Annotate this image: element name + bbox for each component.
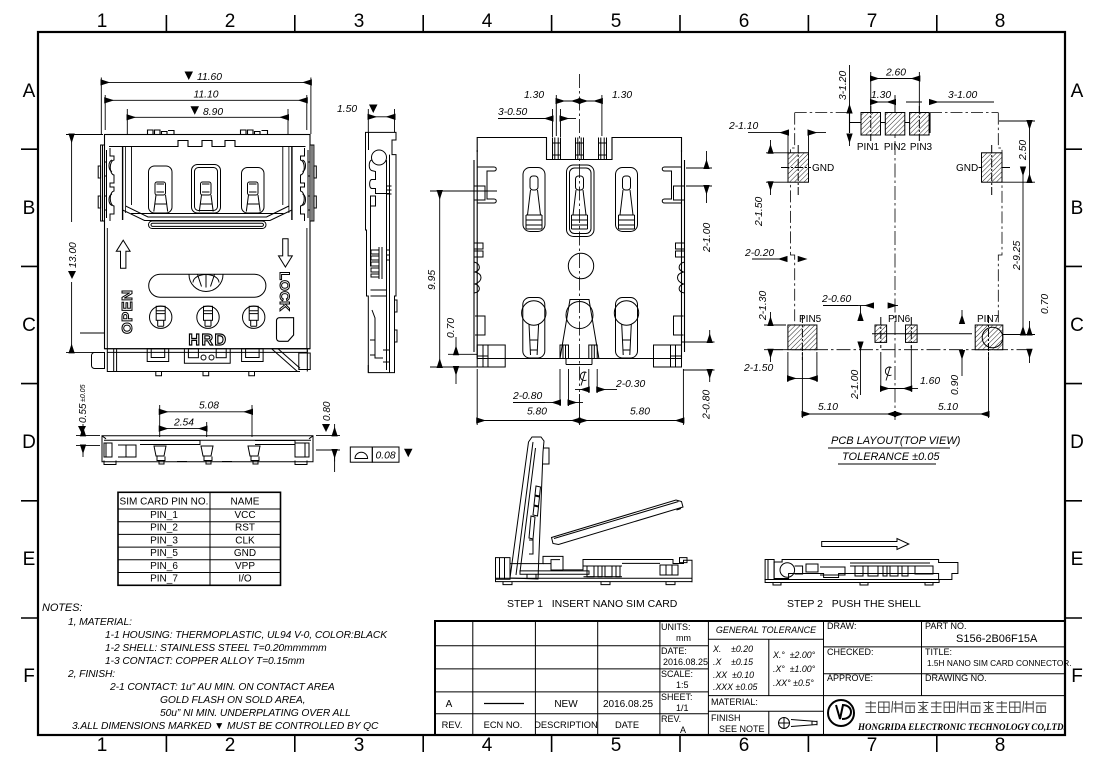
svg-text:MATERIAL:: MATERIAL: <box>711 697 758 707</box>
bottom contact C <box>614 298 638 359</box>
pcb horizontal centerline <box>769 349 1033 351</box>
svg-text:1: 1 <box>97 735 108 756</box>
svg-text:PIN7: PIN7 <box>977 314 1000 325</box>
step2 push arrow <box>822 539 909 550</box>
frame ticks right <box>1066 149 1082 618</box>
svg-text:1.30: 1.30 <box>524 90 544 101</box>
pad PIN1 <box>861 106 881 141</box>
pcb vertical centerline <box>894 96 896 420</box>
dimension 5.10 left <box>802 352 988 418</box>
dimension 2-1.00 pcb <box>860 342 862 395</box>
flatness symbol 0.08 <box>350 447 399 462</box>
capsule slot <box>149 221 267 229</box>
svg-text:5.80: 5.80 <box>527 407 547 418</box>
svg-text:PIN_6: PIN_6 <box>150 561 178 572</box>
svg-text:5.10: 5.10 <box>938 402 958 413</box>
dimension 2-1.50 upper <box>766 140 788 195</box>
frame ticks left <box>21 149 37 618</box>
svg-text:A: A <box>680 725 686 735</box>
svg-text:PIN_7: PIN_7 <box>150 574 178 585</box>
svg-text:DATE: DATE <box>615 720 639 730</box>
dimension 11.10 <box>105 95 307 130</box>
svg-text:SIM CARD PIN NO.: SIM CARD PIN NO. <box>120 497 209 508</box>
svg-text:F: F <box>1071 666 1083 687</box>
top contact slot B <box>567 165 595 237</box>
svg-text:2-0.80: 2-0.80 <box>512 391 542 402</box>
revision header row <box>442 720 639 730</box>
dimension 2-0.60 <box>823 306 898 321</box>
dimension 8.90 <box>127 109 288 134</box>
finish symbol <box>779 718 818 729</box>
frame ticks bottom <box>166 736 936 752</box>
dimension 2.54 <box>160 422 207 437</box>
svg-text:2-0.30: 2-0.30 <box>615 379 645 390</box>
svg-text:PIN3: PIN3 <box>910 142 933 153</box>
svg-text:D: D <box>22 432 36 453</box>
dimension 2-0.80 bottom <box>513 369 583 406</box>
body outline center view <box>474 138 685 359</box>
svg-text:0.55: 0.55 <box>78 403 89 423</box>
svg-text:SHEET:: SHEET: <box>661 692 693 702</box>
svg-text:2.50: 2.50 <box>1018 140 1029 161</box>
svg-text:1/1: 1/1 <box>676 703 689 713</box>
round contact 2 <box>197 306 219 328</box>
dimension 2-0.20 <box>752 258 806 260</box>
svg-text:ECN NO.: ECN NO. <box>484 720 523 730</box>
svg-text:2.54: 2.54 <box>173 418 194 429</box>
svg-text:6: 6 <box>739 735 750 756</box>
dimension 2-9.25 <box>1003 168 1035 335</box>
svg-text:C: C <box>22 315 36 336</box>
pcb outline chain <box>791 113 1003 350</box>
inner walls <box>107 147 307 349</box>
svg-text:2-1.50: 2-1.50 <box>754 197 765 227</box>
svg-text:6: 6 <box>739 11 750 32</box>
svg-text:DESCRIPTION: DESCRIPTION <box>534 720 598 730</box>
svg-text:B: B <box>1071 198 1084 219</box>
svg-text:STEP 2 PUSH THE SHELL: STEP 2 PUSH THE SHELL <box>787 598 921 610</box>
svg-text:GENERAL TOLERANCE: GENERAL TOLERANCE <box>716 625 817 635</box>
left side bracket features <box>474 167 505 367</box>
pad GND right <box>979 145 1011 195</box>
svg-text:LOCK: LOCK <box>277 272 293 312</box>
svg-text:7: 7 <box>867 11 878 32</box>
svg-text:A: A <box>23 81 36 102</box>
dimension 1.60 <box>881 346 918 392</box>
svg-text:E: E <box>23 549 36 570</box>
svg-text:GOLD FLASH ON SOLD AREA,: GOLD FLASH ON SOLD AREA, <box>160 695 305 706</box>
svg-text:REV.: REV. <box>442 720 463 730</box>
svg-text:PART NO.: PART NO. <box>925 621 967 631</box>
svg-text:4: 4 <box>482 11 493 32</box>
svg-text:5.08: 5.08 <box>199 401 219 412</box>
svg-text:2.60: 2.60 <box>885 68 906 79</box>
frame ticks top <box>166 15 936 31</box>
svg-text:2-1.00: 2-1.00 <box>850 370 861 400</box>
svg-text:D: D <box>1070 432 1084 453</box>
svg-text:REV.: REV. <box>661 714 681 724</box>
shell outline top view <box>105 130 311 349</box>
lock sim icon <box>277 318 294 342</box>
svg-text:1.50: 1.50 <box>337 104 357 115</box>
side view body <box>102 436 313 465</box>
dimension 0.70 pcb <box>1029 321 1031 363</box>
top posts <box>553 138 607 160</box>
svg-text:11.10: 11.10 <box>193 90 218 101</box>
pad PIN6 pair <box>872 317 972 348</box>
svg-text:1.5H NANO SIM CARD CONNECTOR.: 1.5H NANO SIM CARD CONNECTOR. <box>927 658 1072 668</box>
dimension 9.95 <box>430 191 497 367</box>
bottom flange <box>80 333 310 376</box>
svg-text:OPEN: OPEN <box>119 289 136 334</box>
svg-text:RST: RST <box>235 523 255 534</box>
svg-text:VPP: VPP <box>235 561 255 572</box>
dimension 5.08 <box>160 405 252 437</box>
svg-text:F: F <box>23 666 35 687</box>
svg-text:5: 5 <box>611 11 622 32</box>
svg-text:CLK: CLK <box>235 535 255 546</box>
svg-text:3: 3 <box>354 735 365 756</box>
pad PIN2 <box>885 113 905 136</box>
svg-text:4: 4 <box>482 735 493 756</box>
dimension 2-1.00 <box>686 151 712 203</box>
shell fold diagonals <box>123 206 292 221</box>
units cell <box>661 622 708 735</box>
svg-text:FINISH: FINISH <box>711 713 741 723</box>
svg-text:S156-2B06F15A: S156-2B06F15A <box>956 633 1038 645</box>
dimension 0.55 <box>76 424 100 457</box>
svg-text:NOTES:: NOTES: <box>42 602 82 614</box>
svg-text:2-1.00: 2-1.00 <box>702 223 713 253</box>
svg-text:8: 8 <box>995 735 1006 756</box>
step1 base connector <box>496 556 693 584</box>
right side bracket features <box>654 167 685 367</box>
svg-text:2-1.30: 2-1.30 <box>758 291 769 321</box>
dimension 3-1.00 <box>930 101 994 103</box>
dimension 0.80 <box>316 424 340 472</box>
svg-text:VCC: VCC <box>234 510 255 521</box>
svg-text:3-1.20: 3-1.20 <box>838 71 849 100</box>
svg-text:5: 5 <box>611 735 622 756</box>
dimension 1.30 left <box>556 95 602 136</box>
LOCK arrow <box>279 239 293 267</box>
svg-text:E: E <box>1071 549 1084 570</box>
company chinese name <box>866 701 1047 713</box>
svg-text:TOLERANCE ±0.05: TOLERANCE ±0.05 <box>842 451 940 463</box>
dimension 13.00 <box>66 135 104 353</box>
svg-text:UNITS:: UNITS: <box>661 622 691 632</box>
dimension 2-0.80 right <box>682 330 715 382</box>
svg-text:1, MATERIAL:: 1, MATERIAL: <box>68 617 132 628</box>
svg-text:2016.08.25: 2016.08.25 <box>603 699 653 710</box>
contact slot 1 <box>149 166 173 213</box>
svg-text:DRAWING NO.: DRAWING NO. <box>925 673 987 683</box>
pads row mid line <box>850 113 931 133</box>
dimension 2-1.50 lower <box>788 352 817 382</box>
svg-text:.XX° ±0.5°: .XX° ±0.5° <box>773 678 814 688</box>
svg-text:13.00: 13.00 <box>68 242 79 268</box>
top contact slot A <box>523 168 545 232</box>
svg-text:1.30: 1.30 <box>612 90 632 101</box>
left ear <box>98 145 125 221</box>
view2: side profile <box>337 104 397 373</box>
svg-text:0.08: 0.08 <box>376 451 396 462</box>
svg-text:X.° ±2.00°: X.° ±2.00° <box>772 650 816 660</box>
dimension 3-0.50 <box>498 109 576 137</box>
side profile body <box>366 132 398 372</box>
svg-text:2-0.60: 2-0.60 <box>821 294 851 305</box>
svg-text:2-0.80: 2-0.80 <box>702 390 713 420</box>
svg-text:PIN6: PIN6 <box>888 314 911 325</box>
dimension 2-1.30 <box>764 312 786 362</box>
svg-text:1-3 CONTACT: COPPER ALLOY T=0: 1-3 CONTACT: COPPER ALLOY T=0.15mm <box>105 656 305 667</box>
bottom contact B center <box>560 300 599 365</box>
svg-text:2-0.20: 2-0.20 <box>744 248 774 259</box>
svg-text:PCB LAYOUT(TOP VIEW): PCB LAYOUT(TOP VIEW) <box>831 435 961 447</box>
contact slot 3 <box>242 168 265 214</box>
dimension 3-1.20 <box>849 65 851 146</box>
step1 shell raised <box>510 437 549 579</box>
svg-text:TITLE:: TITLE: <box>925 647 952 657</box>
svg-text:PIN5: PIN5 <box>799 314 822 325</box>
svg-text:X. ±0.20: X. ±0.20 <box>712 644 753 654</box>
svg-text:±0.05: ±0.05 <box>80 384 87 402</box>
top contact slot C <box>616 168 638 232</box>
svg-text:0.80: 0.80 <box>322 401 333 421</box>
svg-text:11.60: 11.60 <box>197 72 222 83</box>
dimension 2-1.10 <box>748 133 826 153</box>
svg-text:8: 8 <box>995 11 1006 32</box>
svg-text:0.70: 0.70 <box>446 318 457 338</box>
center hole <box>568 253 593 278</box>
svg-text:2, FINISH:: 2, FINISH: <box>67 669 115 680</box>
svg-text:PIN_3: PIN_3 <box>150 535 178 546</box>
title block grid <box>435 621 1065 735</box>
pad PIN7 <box>975 315 1003 360</box>
svg-text:3: 3 <box>354 11 365 32</box>
svg-text:0.90: 0.90 <box>950 375 961 395</box>
pad PIN5 <box>788 315 817 360</box>
svg-text:NAME: NAME <box>231 497 260 508</box>
revision row A <box>446 699 654 710</box>
svg-text:I/O: I/O <box>238 574 252 585</box>
svg-text:8.90: 8.90 <box>203 107 223 118</box>
right ear <box>289 145 316 221</box>
svg-text:HRD: HRD <box>188 332 227 349</box>
dimension 1.50 <box>368 109 394 132</box>
svg-text:2-1.50: 2-1.50 <box>743 363 773 374</box>
OPEN arrow <box>116 240 130 268</box>
svg-text:5.10: 5.10 <box>818 402 838 413</box>
svg-text:2-1 CONTACT: 1u” AU MIN. ON CO: 2-1 CONTACT: 1u” AU MIN. ON CONTACT AREA <box>109 682 335 693</box>
svg-text:HONGRIDA ELECTRONIC TECHNOLOGY: HONGRIDA ELECTRONIC TECHNOLOGY CO,LTD. <box>857 722 1066 732</box>
svg-text:B: B <box>23 198 36 219</box>
svg-text:1.60: 1.60 <box>920 376 940 387</box>
round contact 3 <box>243 306 265 328</box>
svg-text:3.ALL DIMENSIONS MARKED ▼ MUS: 3.ALL DIMENSIONS MARKED ▼ MUST BE CONTRO… <box>72 721 379 732</box>
svg-text:SEE NOTE: SEE NOTE <box>719 724 765 734</box>
dimension 2-0.30 <box>575 369 617 393</box>
bottom contact A <box>522 298 546 359</box>
svg-text:NEW: NEW <box>554 699 578 710</box>
svg-text:9.95: 9.95 <box>427 270 438 290</box>
svg-text:PIN_5: PIN_5 <box>150 548 178 559</box>
centerline symbol pcb <box>885 367 891 380</box>
svg-text:1:5: 1:5 <box>676 680 689 690</box>
round contact 1 <box>150 306 172 328</box>
svg-text:2-1.10: 2-1.10 <box>728 121 758 132</box>
svg-text:GND: GND <box>234 548 256 559</box>
svg-text:0.70: 0.70 <box>1040 294 1051 314</box>
svg-text:1-2 SHELL: STAINLESS STEEL T=0: 1-2 SHELL: STAINLESS STEEL T=0.20mmmmm <box>105 643 327 654</box>
svg-text:3-0.50: 3-0.50 <box>498 107 527 118</box>
svg-text:GND: GND <box>812 163 834 174</box>
step2 connector <box>765 560 958 586</box>
svg-text:PIN_1: PIN_1 <box>150 510 178 521</box>
svg-text:3-1.00: 3-1.00 <box>948 90 977 101</box>
svg-text:.XX ±0.10: .XX ±0.10 <box>713 670 754 680</box>
svg-text:1-1 HOUSING: THERMOPLASTIC, UL: 1-1 HOUSING: THERMOPLASTIC, UL94 V-0, CO… <box>105 630 388 641</box>
svg-text:A: A <box>446 699 453 710</box>
svg-text:CHECKED:: CHECKED: <box>827 647 874 657</box>
general tolerance <box>712 625 817 692</box>
company logo <box>828 700 854 726</box>
svg-text:.X° ±1.00°: .X° ±1.00° <box>773 664 816 674</box>
dimension 0.90 <box>961 310 963 376</box>
svg-text:2: 2 <box>225 735 236 756</box>
dimension 11.60 <box>101 78 311 135</box>
dimension 2.50 <box>999 121 1035 182</box>
svg-text:C: C <box>1070 315 1084 336</box>
centerline symbol view3 <box>580 372 586 385</box>
svg-text:SCALE:: SCALE: <box>661 669 693 679</box>
contact slot 2 <box>192 165 221 214</box>
svg-text:.X ±0.15: .X ±0.15 <box>713 657 753 667</box>
pin table grid <box>118 492 281 585</box>
svg-text:2: 2 <box>225 11 236 32</box>
dimension 5.80 left <box>477 369 683 425</box>
svg-text:PIN_2: PIN_2 <box>150 523 178 534</box>
revision dash <box>484 703 524 705</box>
pad GND left <box>781 145 811 195</box>
svg-text:GND: GND <box>956 163 978 174</box>
svg-text:2016.08.25: 2016.08.25 <box>663 657 708 667</box>
svg-text:7: 7 <box>867 735 878 756</box>
svg-text:STEP 1 INSERT NANO SIM CARD: STEP 1 INSERT NANO SIM CARD <box>507 598 678 610</box>
svg-text:PIN2: PIN2 <box>884 142 907 153</box>
svg-text:1.30: 1.30 <box>871 90 891 101</box>
svg-text:mm: mm <box>676 633 691 643</box>
svg-text:50u” NI MIN. UNDERPLATING OVER: 50u” NI MIN. UNDERPLATING OVER ALL <box>160 708 351 719</box>
svg-text:1: 1 <box>97 11 108 32</box>
dimension 1.30 pcb <box>871 95 922 112</box>
dimension 2.60 <box>871 72 920 112</box>
svg-text:DATE:: DATE: <box>661 646 687 656</box>
dimension 0.70 view3 <box>448 337 477 384</box>
oval recess <box>149 274 266 297</box>
svg-text:2-9.25: 2-9.25 <box>1012 241 1023 271</box>
svg-text:DRAW:: DRAW: <box>827 621 857 631</box>
pad PIN3 <box>910 106 930 141</box>
centerline vertical <box>579 74 581 392</box>
svg-text:APPROVE:: APPROVE: <box>827 673 873 683</box>
svg-text:PIN1: PIN1 <box>857 142 880 153</box>
svg-text:5.80: 5.80 <box>630 407 650 418</box>
svg-text:A: A <box>1071 81 1084 102</box>
svg-text:.XXX ±0.05: .XXX ±0.05 <box>713 682 758 692</box>
step1 sim card <box>552 500 684 545</box>
